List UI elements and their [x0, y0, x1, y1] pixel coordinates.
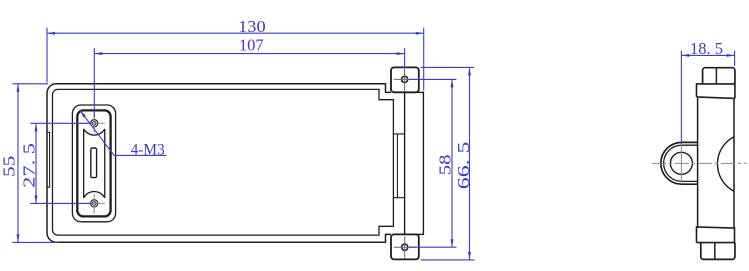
plate top screw hole [91, 120, 98, 127]
arrow 130 left [47, 32, 55, 35]
leader 4-M3 [80, 110, 166, 155]
left wall slot [47, 132, 49, 187]
svg-text:66. 5: 66. 5 [454, 142, 473, 190]
arrow 130 right [416, 32, 424, 35]
arrow 55 top [17, 84, 20, 92]
side lug hole vertical crosshair [680, 144, 682, 183]
plate top hole crosshair [81, 114, 105, 133]
bottom mounting tab [391, 234, 419, 259]
top tab hole crosshair [394, 69, 416, 92]
enclosure body outer outline [47, 84, 391, 242]
dim 18.5 line [681, 54, 734, 56]
dim 130 ext left [46, 28, 48, 83]
dim 107 ext left [93, 48, 95, 118]
dim 58 ext bottom [409, 246, 457, 248]
dim 55 line [17, 84, 19, 243]
bottom tab hole [402, 244, 408, 250]
dim 18.5 ext left [680, 51, 682, 144]
top tab hole [402, 76, 408, 82]
plate channel top arc [84, 129, 105, 135]
dim 58 ext top [409, 78, 457, 80]
dim 66.5 ext top [421, 66, 474, 68]
enclosure body inner outline [53, 89, 394, 235]
side bottom cap [701, 243, 735, 260]
side top band [697, 84, 735, 99]
arrow 58 top [451, 79, 454, 87]
svg-text:130: 130 [238, 17, 266, 36]
dimension texts [0, 17, 723, 189]
side top cap divider [715, 68, 717, 84]
side top cap [703, 68, 735, 84]
plate bottom screw hole [91, 200, 98, 207]
slotted plate inner outline [77, 110, 110, 216]
dim 107 line [94, 53, 404, 55]
dim 18.5 ext right [734, 51, 736, 66]
arrow 27.5 top [35, 123, 38, 131]
dim 27.5 ext bottom [30, 202, 91, 204]
side bottom cap divider [714, 243, 716, 260]
arrow 58 bottom [451, 239, 454, 247]
svg-text:27. 5: 27. 5 [20, 143, 39, 188]
side body right edge [733, 98, 735, 227]
plate center slot [91, 148, 97, 178]
svg-text:107: 107 [239, 36, 264, 55]
side bottom band [697, 227, 735, 243]
arrow leader 4-M3 [80, 110, 86, 117]
side lug inner [664, 145, 698, 181]
arrow 27.5 bottom [35, 195, 38, 203]
dim 107 ext right [404, 48, 406, 68]
dim 130 ext right [423, 28, 425, 91]
end bar channel [393, 134, 404, 198]
right end bar [405, 92, 424, 234]
svg-text:18. 5: 18. 5 [690, 39, 723, 58]
dim 55 ext top [12, 83, 48, 85]
side body arc [717, 137, 733, 192]
dim 27.5 line [35, 123, 37, 203]
arrow 107 right [397, 52, 405, 55]
dim 66.5 line [469, 67, 471, 260]
bottom tab hole crosshair [394, 236, 416, 258]
slotted plate outer outline [72, 105, 115, 222]
arrow 18.5 left [681, 54, 689, 57]
arrow 18.5 right [727, 54, 735, 57]
arrow 55 bottom [17, 234, 20, 242]
top mounting tab [391, 67, 419, 92]
dim 58 line [451, 79, 453, 247]
dim 66.5 ext bottom [421, 259, 475, 261]
plate bottom hole crosshair [81, 194, 105, 214]
side lug hole [670, 152, 692, 174]
svg-text:4-M3: 4-M3 [131, 141, 165, 158]
side body left edge [697, 97, 699, 227]
plate channel bottom arc [84, 192, 105, 198]
side view horizontal centerline [652, 162, 747, 164]
dim 55 ext bottom [12, 241, 59, 243]
arrow 66.5 bottom [468, 252, 471, 260]
side lug outer [661, 142, 698, 184]
svg-text:55: 55 [0, 156, 18, 177]
svg-text:58: 58 [436, 155, 455, 176]
plate channel sides [84, 129, 105, 198]
dim 27.5 ext top [30, 122, 91, 124]
dim 130 line [47, 32, 424, 34]
arrow 66.5 top [468, 67, 471, 75]
arrow 107 left [94, 52, 102, 55]
